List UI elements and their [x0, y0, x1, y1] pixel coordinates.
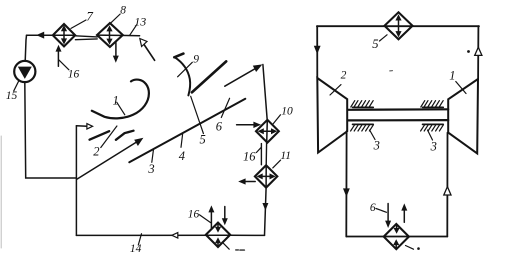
nozzle 2 (left trapezoid) — [317, 78, 347, 153]
bottom valve 16 — [206, 223, 230, 247]
nozzle stroke 2b — [116, 131, 134, 140]
svg-text:6: 6 — [216, 120, 223, 134]
top-right vertical wire (left fig) — [263, 65, 267, 120]
wire: left vertical corner down to pump — [25, 35, 26, 61]
deflector hook 1 — [92, 80, 149, 119]
bottom valve up-arrow — [210, 211, 212, 229]
label 7 — [86, 8, 93, 23]
valve 6 leader tick — [406, 246, 414, 250]
label 5 — [200, 133, 206, 147]
valve 6 up-arrow — [403, 210, 405, 222]
pump 15 — [14, 61, 35, 82]
inflow diagonal arrow — [77, 142, 137, 180]
flow arrow down on left drop — [343, 188, 350, 197]
double-line coupling 10-11 — [260, 144, 262, 165]
valve 6 — [384, 224, 409, 249]
branch with open right arrow — [76, 125, 87, 128]
svg-text:15: 15 — [6, 90, 18, 102]
svg-text:16: 16 — [188, 208, 200, 220]
label 2 — [93, 145, 99, 159]
bottom bus line — [346, 236, 447, 238]
valve 5 — [385, 12, 413, 39]
svg-text:14: 14 — [130, 243, 142, 255]
valve 8 outlet down-arrow — [115, 42, 117, 57]
valve 11 — [255, 165, 277, 187]
flow arrow down on left vertical — [314, 46, 321, 54]
right vertical wire — [477, 26, 479, 79]
svg-text:2: 2 — [341, 69, 347, 81]
bottom valve down-arrow — [224, 207, 226, 220]
double-line coupling 7-8 — [75, 36, 97, 37]
wire: top-left horizontal to valve 7 — [27, 34, 76, 36]
open arrow into node 13 — [143, 43, 155, 61]
svg-text:11: 11 — [280, 150, 291, 162]
channel lower line — [348, 119, 448, 122]
wire bottom right corner up — [229, 234, 265, 236]
label 15 — [6, 90, 18, 102]
seal hatch upper-left — [351, 101, 373, 108]
svg-text:7: 7 — [86, 8, 93, 23]
svg-text:8: 8 — [120, 5, 126, 17]
label 10 — [281, 105, 293, 117]
label 3 — [147, 162, 154, 176]
label 16 (coupling) — [243, 149, 256, 163]
valve 11 outlet arrow left — [245, 181, 256, 183]
svg-text:6: 6 — [370, 202, 376, 214]
svg-text:1: 1 — [113, 94, 119, 108]
valve 10 inlet arrow — [237, 124, 254, 126]
flow arrow left on top wire — [36, 32, 44, 39]
svg-text:1: 1 — [449, 69, 455, 83]
open left arrow on bottom line — [172, 233, 178, 239]
flow arrow down on right drop wire — [262, 203, 268, 211]
svg-text:3: 3 — [147, 162, 154, 176]
blade stroke lower — [192, 61, 226, 92]
top bus line — [317, 25, 479, 27]
svg-text:10: 10 — [281, 105, 293, 117]
svg-text:9: 9 — [193, 54, 199, 66]
label 14 — [130, 243, 142, 255]
svg-text:3: 3 — [430, 139, 437, 153]
valve 6 down-arrow — [387, 204, 389, 222]
label 3 left — [373, 138, 380, 152]
speck — [390, 70, 393, 72]
blade arc 9 tick — [174, 54, 183, 58]
label 16 (bottom valve) — [188, 208, 200, 220]
label 1 (right fig) — [449, 69, 455, 83]
label 13 — [134, 15, 146, 29]
diagonal arrow to top node — [225, 68, 256, 86]
dot after leader — [417, 247, 420, 250]
svg-text:5: 5 — [200, 133, 206, 147]
channel upper line — [348, 108, 448, 111]
svg-text:16: 16 — [243, 149, 256, 163]
scan edge artifact — [0, 136, 2, 248]
wire: riser vertical — [75, 126, 77, 236]
label 5 (right fig) — [372, 37, 378, 51]
valve 7 — [53, 24, 75, 46]
label 3 right — [430, 139, 437, 153]
svg-text:4: 4 — [179, 149, 185, 163]
valve 7 inlet up-arrow (16) — [57, 51, 59, 67]
left vertical wire — [316, 26, 318, 78]
blade arc 9 — [175, 57, 191, 95]
label 1 — [113, 94, 119, 108]
right drop wire — [446, 133, 448, 237]
seal hatch lower-right (3) — [421, 124, 444, 131]
dot node — [467, 50, 470, 53]
label 2 (right fig) — [341, 69, 347, 81]
bottom line left of valve — [76, 234, 232, 236]
label 4 — [179, 149, 185, 163]
label 6 (right fig) — [370, 202, 376, 214]
wire: pump bottom down and right to riser — [25, 82, 77, 178]
left drop wire — [345, 131, 347, 236]
label 9 — [193, 54, 199, 66]
nozzle stroke 2a — [90, 131, 110, 140]
label 6 — [216, 120, 223, 134]
label 8 — [120, 5, 126, 17]
wire valve 11 down to bottom corner — [265, 165, 267, 235]
valve 8 — [97, 23, 123, 47]
svg-text:16: 16 — [68, 69, 80, 81]
seal hatch lower-left (3) — [351, 124, 374, 131]
valve 10 — [256, 120, 279, 143]
nozzle 1 (right trapezoid) — [448, 79, 478, 153]
separator diagonal line 3-4 — [129, 99, 245, 163]
open up arrow on right vertical — [475, 47, 482, 55]
svg-text:2: 2 — [93, 145, 99, 159]
label 16 (valve 7) — [68, 69, 80, 81]
label 11 — [280, 150, 291, 162]
open up arrow on right drop — [444, 187, 451, 195]
svg-text:5: 5 — [372, 37, 378, 51]
seal hatch upper-right — [421, 101, 443, 108]
faint label 12 leader — [222, 242, 229, 249]
svg-text:3: 3 — [373, 138, 380, 152]
wire valve 8 to 13 — [97, 34, 140, 37]
